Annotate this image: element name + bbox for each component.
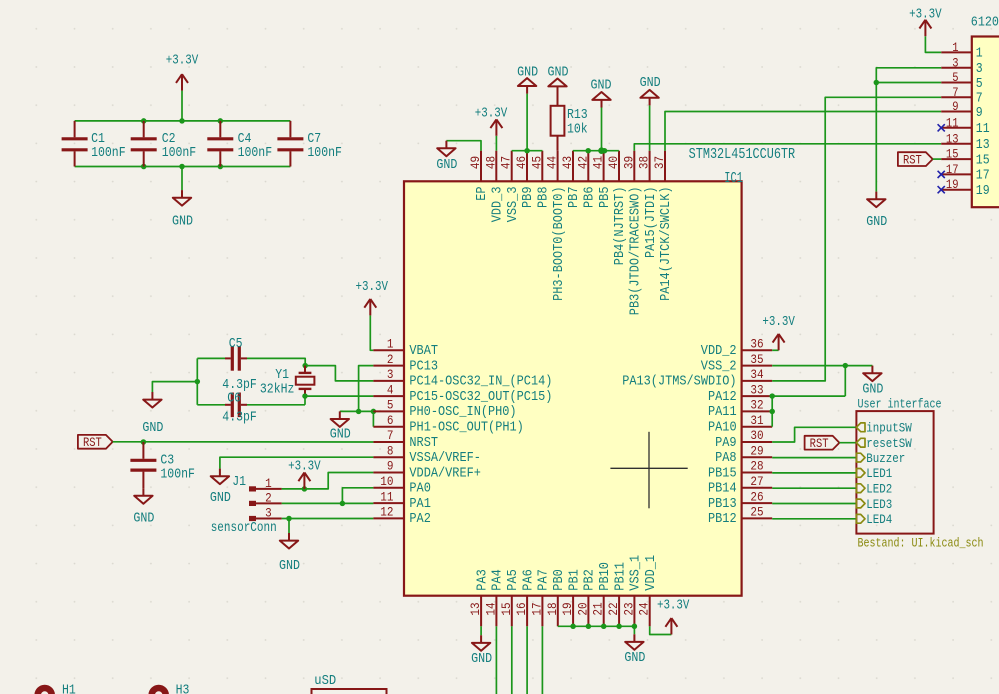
junction PC13 branch at PH0 row	[356, 409, 362, 415]
wire PC13 pin 2 branch	[359, 366, 374, 412]
mounting hole H3	[152, 683, 190, 694]
wire PB12 pin 25 to LED4	[772, 518, 856, 520]
svg-text:15: 15	[946, 147, 959, 162]
wire C5-C6 left rail	[196, 358, 198, 404]
sheet pin LED1	[856, 466, 892, 481]
svg-text:34: 34	[750, 367, 763, 382]
svg-text:GND: GND	[172, 215, 193, 230]
wire VDDA pin 9 to J1 pin 1	[282, 473, 374, 489]
junction bottom rail at C2	[141, 164, 147, 170]
svg-text:41: 41	[591, 156, 606, 169]
wire PA2 to GND	[288, 519, 290, 534]
svg-text:9: 9	[976, 106, 983, 121]
connector pin leads 1-19	[941, 52, 972, 189]
svg-text:PB0: PB0	[552, 569, 567, 591]
power +3.3V (VDD_3)	[475, 107, 508, 136]
junction pin 19 tie	[570, 624, 576, 630]
svg-text:R13: R13	[567, 108, 588, 123]
wire PA15 pin 38 to GND	[649, 105, 651, 150]
junction NRST at C3	[141, 439, 147, 445]
junction pin 20 tie	[586, 624, 592, 630]
capacitor C4	[207, 121, 272, 167]
svg-text:7: 7	[952, 85, 958, 100]
ground GND (PA15)	[640, 76, 661, 105]
sheet pin LED3	[856, 497, 892, 512]
svg-text:PA4: PA4	[491, 569, 506, 590]
svg-text:5: 5	[952, 70, 958, 85]
svg-text:PA3: PA3	[475, 569, 490, 591]
svg-text:48: 48	[483, 156, 498, 169]
svg-text:37: 37	[652, 156, 667, 169]
svg-text:8: 8	[387, 444, 394, 459]
svg-text:C2: C2	[162, 132, 176, 147]
svg-text:RST: RST	[903, 153, 922, 167]
ground GND (C3)	[133, 488, 154, 527]
wire crystal top to PC14 pin 3	[305, 366, 373, 381]
svg-text:PA0: PA0	[409, 482, 431, 497]
junction PA11 pin 32	[769, 409, 775, 415]
svg-text:PB3(JTDO/TRACESWO): PB3(JTDO/TRACESWO)	[629, 187, 644, 316]
svg-text:PA7: PA7	[537, 569, 552, 591]
resistor R13 10k	[551, 94, 588, 151]
IC1 right pin numbers 25-36	[750, 337, 763, 520]
wire PA0 pin 10 branch	[342, 488, 373, 504]
wire VDD_2 pin 36 stem	[772, 349, 778, 351]
junction bottom rail at C4	[218, 164, 224, 170]
IC1 top pin names	[475, 187, 674, 316]
crosshair cursor	[610, 432, 687, 509]
capacitor C7	[277, 121, 342, 167]
global label RST (resetSW)	[805, 436, 840, 451]
wire RST to connector pin 15	[933, 158, 942, 160]
svg-text:7: 7	[976, 92, 983, 107]
connector pin numbers (outside)	[946, 40, 959, 192]
svg-text:3: 3	[952, 55, 958, 70]
IC1 bottom pin names	[475, 555, 659, 591]
svg-text:RST: RST	[810, 437, 829, 451]
svg-text:GND: GND	[133, 512, 154, 527]
svg-text:19: 19	[560, 602, 575, 615]
svg-text:PB4(NJTRST): PB4(NJTRST)	[613, 187, 628, 266]
svg-text:sensorConn: sensorConn	[211, 521, 277, 536]
sheet pin LED4	[856, 512, 892, 527]
svg-text:PB9: PB9	[521, 187, 536, 209]
svg-text:PB12: PB12	[708, 512, 737, 527]
power +3.3V (capacitor bank)	[166, 54, 199, 91]
junction PB6 pin 42	[585, 148, 591, 154]
svg-text:16: 16	[514, 602, 529, 615]
IC1 bottom pin numbers 13-24	[468, 602, 652, 615]
capacitor C1	[62, 121, 126, 167]
svg-text:PA9: PA9	[715, 436, 737, 451]
svg-text:31: 31	[750, 413, 763, 428]
svg-text:47: 47	[499, 156, 514, 169]
IC1 left pin leads 1-12	[373, 350, 404, 518]
svg-text:+3.3V: +3.3V	[166, 54, 199, 69]
IC1 left pin numbers 1-12	[380, 337, 393, 520]
junction top rail at +3.3V	[179, 118, 185, 124]
wire PA5 pin 15 down	[511, 626, 513, 694]
ground GND (sensorConn)	[279, 533, 300, 574]
svg-text:Y1: Y1	[275, 368, 289, 383]
svg-text:LED4: LED4	[866, 512, 892, 527]
svg-text:H3: H3	[176, 683, 190, 694]
svg-text:GND: GND	[866, 215, 887, 230]
svg-text:PH1-OSC_OUT(PH1): PH1-OSC_OUT(PH1)	[409, 421, 523, 436]
power +3.3V (VBAT)	[356, 280, 389, 315]
svg-text:35: 35	[750, 352, 763, 367]
wire PB0..VSS_1 tie	[558, 625, 635, 627]
junction crystal bottom node	[302, 393, 308, 399]
svg-text:resetSW: resetSW	[866, 436, 912, 451]
power +3.3V (connector)	[909, 7, 942, 36]
svg-text:GND: GND	[548, 66, 569, 81]
svg-text:4.3pF: 4.3pF	[222, 410, 256, 425]
svg-text:GND: GND	[142, 421, 163, 436]
wire PA1 pin 11 to J1 pin 2	[282, 502, 374, 504]
ground GND (VSS_2)	[862, 366, 883, 398]
svg-text:PA12: PA12	[708, 390, 737, 405]
svg-text:LED1: LED1	[866, 466, 892, 481]
crystal Y1 32kHz	[260, 366, 315, 398]
svg-text:GND: GND	[591, 78, 612, 93]
svg-text:VSS_1: VSS_1	[629, 555, 644, 591]
svg-text:11: 11	[976, 122, 990, 137]
ground GND (PB5)	[591, 78, 612, 107]
wire PA8 pin 29 to Buzzer	[772, 457, 856, 459]
wire PA2 pin 12 to J1 pin 3	[282, 518, 374, 520]
svg-text:User interface: User interface	[858, 397, 942, 412]
wire RST to NRST pin 7	[113, 441, 374, 443]
ground GND (EP)	[436, 141, 457, 173]
wire branch to PH1 pin 6	[372, 411, 374, 426]
wire PA12/PA11/PA10 tie	[771, 396, 773, 427]
svg-text:25: 25	[750, 505, 763, 520]
wire PB9 to GND	[526, 94, 528, 151]
svg-text:PB13: PB13	[708, 497, 737, 512]
svg-text:2: 2	[265, 491, 272, 506]
svg-text:49: 49	[468, 156, 483, 169]
svg-text:PA15(JTDI): PA15(JTDI)	[644, 187, 659, 259]
svg-text:36: 36	[750, 337, 763, 352]
svg-text:7: 7	[387, 428, 394, 443]
svg-text:PA5: PA5	[506, 569, 521, 591]
svg-text:4: 4	[387, 382, 394, 397]
junction pin 23 tie	[632, 624, 638, 630]
IC1 bottom pin leads 13-24	[481, 596, 650, 627]
svg-text:VDD_2: VDD_2	[701, 344, 737, 359]
svg-text:VDDA/VREF+: VDDA/VREF+	[409, 466, 481, 481]
svg-text:PA11: PA11	[708, 405, 737, 420]
wire C5 row right to crystal top	[247, 358, 305, 365]
junction crystal top node	[302, 363, 308, 369]
svg-text:Buzzer: Buzzer	[866, 451, 905, 466]
svg-text:inputSW: inputSW	[866, 421, 912, 436]
junction PA0/PA1 node	[340, 501, 346, 507]
svg-text:IC1: IC1	[724, 171, 743, 187]
wire PA9 pin 30 to inputSW	[772, 427, 856, 442]
svg-text:29: 29	[750, 444, 763, 459]
wire PA3 pin 13 to GND	[480, 626, 482, 635]
svg-text:PB5: PB5	[598, 187, 613, 209]
junction VDDA at +3.3V	[302, 486, 308, 492]
svg-text:3: 3	[387, 367, 394, 382]
wire VSS_3/PB9/PB8 tie	[512, 150, 543, 152]
wire VDD_3 pin 48 stem	[495, 136, 497, 151]
svg-text:15: 15	[976, 153, 990, 168]
svg-text:VBAT: VBAT	[409, 344, 438, 359]
junction top rail at C2	[141, 118, 147, 124]
ground GND (PA3)	[471, 635, 492, 667]
svg-text:100nF: 100nF	[307, 146, 342, 161]
svg-text:39: 39	[621, 156, 636, 169]
svg-text:20: 20	[575, 602, 590, 615]
connector 6120 body	[971, 15, 999, 207]
svg-text:H1: H1	[62, 683, 76, 694]
power +3.3V (VDDA/J1)	[288, 459, 321, 489]
junction left rail GND branch	[195, 379, 201, 385]
svg-text:VSSA/VREF-: VSSA/VREF-	[409, 451, 481, 466]
svg-text:GND: GND	[210, 491, 231, 506]
wire +3.3V stem	[181, 91, 183, 121]
svg-text:VDD_1: VDD_1	[644, 555, 659, 591]
svg-text:PB8: PB8	[537, 187, 552, 209]
wire crystal bottom to C6 row	[304, 396, 306, 405]
svg-text:PC14-OSC32_IN_(PC14): PC14-OSC32_IN_(PC14)	[409, 375, 552, 390]
svg-text:PA6: PA6	[521, 569, 536, 591]
svg-text:PB2: PB2	[583, 569, 598, 591]
svg-text:2: 2	[387, 352, 394, 367]
wire GND rail to C1 C2 C4 C7 bottoms	[75, 166, 291, 168]
svg-text:+3.3V: +3.3V	[288, 459, 321, 474]
svg-text:24: 24	[637, 602, 652, 615]
svg-text:PB14: PB14	[708, 482, 737, 497]
svg-text:3: 3	[976, 62, 983, 77]
svg-text:33: 33	[750, 382, 763, 397]
svg-text:PB1: PB1	[567, 569, 582, 591]
wire VBAT pin 1 to +3.3V	[370, 315, 373, 350]
IC1 top pin leads 37-49	[481, 151, 665, 182]
svg-text:PB6: PB6	[583, 187, 598, 209]
junction VSS_2 at PA12 riser	[843, 363, 849, 369]
junction top rail at C4	[218, 118, 224, 124]
svg-text:12: 12	[380, 505, 393, 520]
svg-text:PC15-OSC32_OUT(PC15): PC15-OSC32_OUT(PC15)	[409, 390, 552, 405]
svg-text:VSS_3: VSS_3	[506, 187, 521, 223]
svg-text:14: 14	[483, 602, 498, 615]
junction PB9 pin 46	[524, 148, 530, 154]
ground GND (VSS_1)	[624, 634, 645, 666]
svg-text:61201021621: 61201021621	[971, 15, 999, 30]
wire PB13 pin 26 to LED3	[772, 503, 856, 505]
svg-text:17: 17	[946, 162, 959, 177]
sheet pin LED2	[856, 482, 892, 497]
svg-text:+3.3V: +3.3V	[762, 315, 795, 330]
wire PB15 pin 28 to LED1	[772, 472, 856, 474]
svg-text:27: 27	[750, 474, 763, 489]
svg-text:C6: C6	[227, 392, 241, 407]
svg-text:21: 21	[591, 602, 606, 615]
wire PA4 pin 14 down	[495, 626, 497, 694]
junction pin 21 tie	[601, 624, 607, 630]
wire connector pin 1 to +3.3V	[925, 36, 941, 52]
wire C6 row left	[197, 404, 225, 406]
svg-text:17: 17	[976, 169, 990, 184]
wire PA13 pin 34 to connector pin 7	[772, 97, 941, 381]
sheet pin resetSW	[856, 436, 912, 451]
sheet User interface box	[856, 397, 983, 551]
svg-text:PA10: PA10	[708, 421, 737, 436]
connector uSD (top edge)	[312, 674, 387, 694]
svg-text:1: 1	[976, 47, 983, 62]
svg-text:VSS_2: VSS_2	[701, 359, 737, 374]
svg-text:GND: GND	[862, 383, 883, 398]
svg-text:32: 32	[750, 398, 763, 413]
svg-text:42: 42	[575, 156, 590, 169]
wire C6 row right	[247, 404, 305, 406]
svg-text:PB7: PB7	[567, 187, 582, 209]
power +3.3V (VDD_2)	[762, 315, 795, 350]
wire VSSA pin 8 to GND	[220, 457, 374, 468]
svg-text:+3.3V: +3.3V	[909, 7, 942, 22]
svg-text:13: 13	[468, 602, 483, 615]
junction PH0 pin 5 node	[371, 409, 377, 415]
wire PA12 pin 33 row	[772, 395, 845, 397]
junction connector pin 5 node	[874, 80, 880, 86]
wire C5 row left	[197, 357, 225, 359]
no-connect connector pin 17	[938, 171, 945, 178]
svg-text:100nF: 100nF	[162, 146, 197, 161]
svg-text:15: 15	[499, 602, 514, 615]
wire PB14 pin 27 to LED2	[772, 487, 856, 489]
svg-text:100nF: 100nF	[91, 146, 126, 161]
svg-text:1: 1	[952, 40, 958, 55]
ground GND (connector)	[866, 192, 887, 230]
svg-text:38: 38	[637, 156, 652, 169]
svg-text:STM32L451CCU6TR: STM32L451CCU6TR	[689, 147, 796, 163]
sheet pin inputSW	[856, 421, 912, 436]
wire VSS_1 to GND	[633, 626, 635, 634]
svg-text:10k: 10k	[567, 122, 588, 137]
svg-text:1: 1	[387, 337, 394, 352]
wire RST to resetSW	[839, 442, 856, 444]
svg-text:PA13(JTMS/SWDIO): PA13(JTMS/SWDIO)	[622, 375, 736, 390]
svg-text:PA8: PA8	[715, 451, 737, 466]
svg-text:46: 46	[514, 156, 529, 169]
ground GND (VSSA)	[210, 469, 231, 507]
svg-text:23: 23	[621, 602, 636, 615]
wire VDD_1 pin 24 to +3.3V	[650, 626, 672, 634]
svg-text:PC13: PC13	[409, 359, 438, 374]
wire PB3 pin 39 to connector pin 13	[634, 144, 941, 151]
svg-text:GND: GND	[279, 559, 300, 574]
svg-text:9: 9	[387, 459, 394, 474]
svg-text:LED2: LED2	[866, 482, 892, 497]
svg-text:11: 11	[946, 115, 959, 130]
svg-text:EP: EP	[475, 187, 490, 201]
svg-text:+3.3V: +3.3V	[356, 280, 389, 295]
svg-text:C1: C1	[91, 132, 105, 147]
wire GND stem (capacitor bank)	[181, 167, 183, 191]
wire +3.3V rail to C1 C2 C4 C7 tops	[75, 120, 291, 122]
svg-text:RST: RST	[83, 436, 102, 450]
svg-text:26: 26	[750, 489, 763, 504]
svg-text:22: 22	[606, 602, 621, 615]
svg-text:C5: C5	[229, 337, 243, 352]
capacitor C2	[131, 121, 197, 167]
svg-text:100nF: 100nF	[160, 467, 195, 482]
svg-text:30: 30	[750, 428, 763, 443]
svg-text:PH0-OSC_IN(PH0): PH0-OSC_IN(PH0)	[409, 405, 516, 420]
junction PA2 GND branch	[286, 516, 292, 522]
wire PA6 pin 16 down	[526, 626, 528, 694]
svg-text:NRST: NRST	[409, 436, 438, 451]
svg-text:17: 17	[529, 602, 544, 615]
IC1 right pin leads 25-36	[742, 350, 773, 518]
global label RST (connector pin 15)	[898, 152, 933, 167]
wire left rail to GND	[152, 382, 197, 392]
ground GND (VSS_3)	[517, 65, 538, 93]
ground GND (PH0/PH1)	[330, 411, 351, 442]
IC U1 STM32L451CCU6TR body	[404, 147, 795, 596]
svg-text:J1: J1	[232, 475, 246, 490]
svg-text:+3.3V: +3.3V	[475, 107, 508, 122]
ground GND (R13/BOOT0)	[548, 66, 569, 94]
junction PA12 pin 33	[769, 393, 775, 399]
svg-text:1: 1	[265, 476, 272, 491]
svg-text:uSD: uSD	[314, 674, 336, 689]
svg-text:PB15: PB15	[708, 466, 737, 481]
svg-text:GND: GND	[624, 651, 645, 666]
svg-text:PH3-BOOT0(BOOT0): PH3-BOOT0(BOOT0)	[552, 187, 567, 301]
svg-text:GND: GND	[330, 428, 351, 443]
global label RST (left)	[78, 435, 113, 450]
wire PA7 pin 17 down	[541, 626, 543, 694]
svg-text:6: 6	[387, 413, 394, 428]
capacitor C5	[222, 337, 256, 393]
mounting hole H1	[38, 683, 76, 694]
svg-text:43: 43	[560, 156, 575, 169]
svg-text:19: 19	[976, 184, 990, 199]
power +3.3V (VDD_1)	[657, 598, 690, 634]
ground GND (crystal caps)	[142, 392, 163, 436]
svg-text:5: 5	[387, 398, 394, 413]
svg-text:PB11: PB11	[613, 562, 628, 591]
junction bottom rail at GND	[179, 164, 185, 170]
wire VSS_2 pin 35 to GND	[772, 365, 872, 367]
svg-text:GND: GND	[517, 65, 538, 80]
wire PB5 to GND	[601, 108, 603, 151]
IC1 top pin numbers 37-49	[468, 156, 667, 169]
svg-text:+3.3V: +3.3V	[657, 598, 690, 613]
svg-text:GND: GND	[436, 158, 457, 173]
sheet pin Buzzer	[856, 451, 905, 466]
svg-text:GND: GND	[471, 652, 492, 667]
ground GND (capacitor bank)	[172, 190, 193, 230]
no-connect connector pin 11	[938, 124, 945, 131]
wire crystal bottom to PC15 pin 4	[305, 395, 373, 397]
svg-text:18: 18	[545, 602, 560, 615]
wire PA14 pin 37 to connector pin 9	[665, 112, 941, 151]
IC1 right pin names	[622, 344, 736, 527]
svg-text:PA2: PA2	[409, 512, 431, 527]
svg-text:LED3: LED3	[866, 497, 892, 512]
svg-text:32kHz: 32kHz	[260, 383, 295, 398]
svg-text:44: 44	[545, 156, 560, 169]
wire connector pin 5	[876, 82, 941, 84]
IC1 left pin names	[409, 344, 552, 527]
junction pin 22 tie	[616, 624, 622, 630]
